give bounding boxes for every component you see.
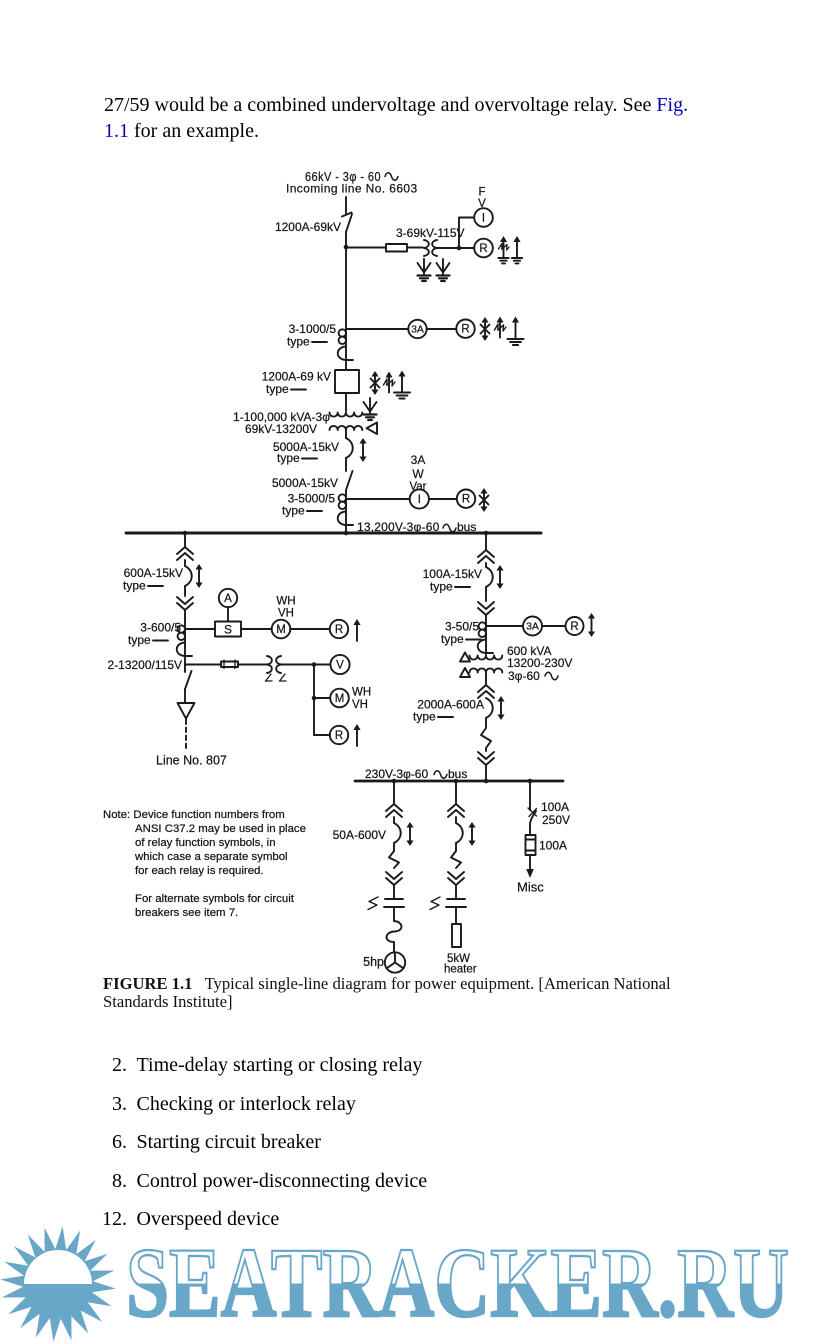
svg-text:VH: VH bbox=[352, 699, 368, 711]
svg-text:F: F bbox=[478, 187, 485, 199]
svg-text:type: type bbox=[282, 504, 305, 518]
svg-text:R: R bbox=[479, 243, 487, 255]
svg-text:M: M bbox=[335, 693, 345, 705]
svg-text:R: R bbox=[570, 621, 578, 633]
svg-text:3A: 3A bbox=[411, 453, 426, 467]
svg-text:S: S bbox=[224, 623, 232, 637]
svg-text:3-69kV-115V: 3-69kV-115V bbox=[396, 226, 465, 240]
svg-text:3A: 3A bbox=[411, 324, 424, 336]
svg-text:For alternate symbols for circ: For alternate symbols for circuit bbox=[135, 893, 295, 905]
svg-text:type: type bbox=[287, 335, 310, 349]
svg-text:SEATRACKER.RU: SEATRACKER.RU bbox=[126, 1227, 789, 1338]
svg-text:13200-230V: 13200-230V bbox=[507, 656, 572, 670]
svg-text:R: R bbox=[335, 730, 343, 742]
svg-text:Line No. 807: Line No. 807 bbox=[156, 754, 227, 768]
svg-text:100A: 100A bbox=[539, 839, 567, 853]
svg-text:of relay function symbols, in: of relay function symbols, in bbox=[135, 837, 276, 849]
svg-text:I: I bbox=[482, 213, 485, 225]
svg-text:3A: 3A bbox=[526, 621, 539, 633]
svg-text:type: type bbox=[413, 710, 436, 724]
svg-text:type: type bbox=[128, 633, 151, 647]
svg-text:type: type bbox=[441, 632, 464, 646]
svg-text:I: I bbox=[418, 494, 421, 506]
svg-text:Misc: Misc bbox=[517, 880, 544, 895]
svg-text:3φ-60: 3φ-60 bbox=[508, 669, 540, 683]
svg-text:type: type bbox=[430, 580, 453, 594]
svg-text:R: R bbox=[462, 494, 470, 506]
svg-text:type: type bbox=[266, 382, 289, 396]
svg-text:which case a separate symbol: which case a separate symbol bbox=[134, 851, 288, 863]
svg-text:breakers see item 7.: breakers see item 7. bbox=[135, 907, 238, 919]
svg-text:R: R bbox=[461, 324, 469, 336]
svg-text:bus: bus bbox=[448, 767, 467, 781]
svg-text:V: V bbox=[336, 660, 344, 672]
svg-text:W: W bbox=[412, 467, 424, 481]
svg-text:230V-3φ-60: 230V-3φ-60 bbox=[365, 767, 428, 781]
svg-text:type: type bbox=[277, 451, 300, 465]
svg-text:ANSI C37.2 may be used in plac: ANSI C37.2 may be used in place bbox=[135, 823, 306, 835]
svg-text:for each relay is required.: for each relay is required. bbox=[135, 865, 264, 877]
svg-text:VH: VH bbox=[278, 608, 294, 620]
svg-text:100A: 100A bbox=[541, 800, 569, 814]
svg-text:Incoming line No. 6603: Incoming line No. 6603 bbox=[286, 182, 418, 196]
svg-text:50A-600V: 50A-600V bbox=[333, 828, 386, 842]
svg-text:250V: 250V bbox=[542, 813, 570, 827]
svg-text:WH: WH bbox=[352, 687, 371, 699]
svg-text:Note: Device function numbers: Note: Device function numbers from bbox=[103, 809, 285, 821]
svg-text:WH: WH bbox=[276, 596, 295, 608]
svg-text:bus: bus bbox=[457, 520, 476, 534]
svg-text:R: R bbox=[335, 624, 343, 636]
svg-text:2-13200/115V: 2-13200/115V bbox=[107, 658, 182, 672]
svg-text:1200A-69kV: 1200A-69kV bbox=[275, 220, 341, 234]
svg-text:13,200V-3φ-60: 13,200V-3φ-60 bbox=[357, 520, 440, 534]
svg-text:69kV-13200V: 69kV-13200V bbox=[245, 422, 317, 436]
svg-text:type: type bbox=[123, 579, 146, 593]
svg-text:V: V bbox=[478, 198, 486, 210]
svg-text:5hp: 5hp bbox=[363, 955, 384, 969]
svg-text:5000A-15kV: 5000A-15kV bbox=[272, 476, 338, 490]
svg-text:M: M bbox=[276, 624, 286, 636]
svg-text:A: A bbox=[224, 593, 232, 605]
